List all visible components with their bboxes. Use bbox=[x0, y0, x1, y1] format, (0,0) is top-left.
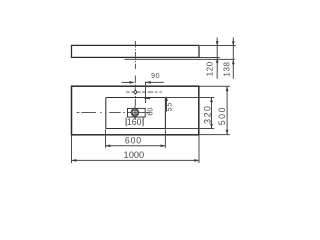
svg-text:600: 600 bbox=[125, 136, 142, 146]
svg-text:120: 120 bbox=[205, 61, 214, 76]
svg-text:60: 60 bbox=[147, 108, 154, 116]
svg-text:160: 160 bbox=[127, 117, 142, 127]
svg-text:320: 320 bbox=[202, 105, 212, 124]
svg-text:90: 90 bbox=[151, 73, 160, 80]
svg-text:500: 500 bbox=[217, 106, 227, 125]
svg-text:55: 55 bbox=[167, 102, 174, 112]
svg-text:138: 138 bbox=[222, 61, 231, 76]
svg-text:1000: 1000 bbox=[124, 150, 145, 160]
